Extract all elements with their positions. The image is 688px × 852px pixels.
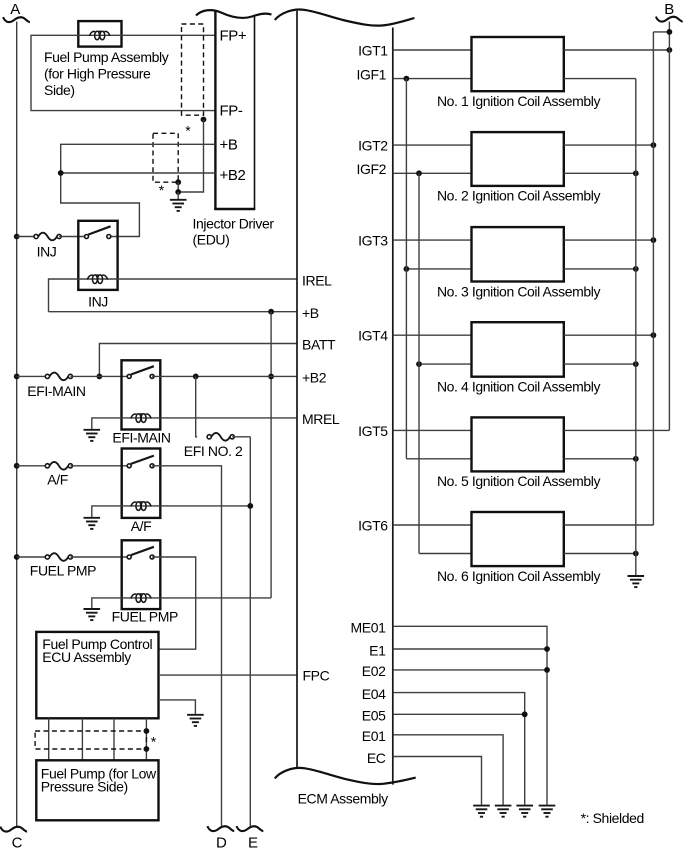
junction: shield drain +B — [175, 179, 181, 185]
ECM assembly left edge — [296, 11, 298, 769]
junction: A/F coil on EFI NO.2 line — [247, 503, 253, 509]
wire: EC to ground — [393, 757, 482, 805]
ground: fuel pump control ECU — [187, 715, 204, 726]
junction: E1 — [544, 646, 550, 652]
junction: bus to A/F fuse — [14, 463, 20, 469]
wire: shield drain segment to ground node — [177, 182, 179, 192]
wire: pump lead 3 — [113, 718, 115, 760]
svg-text:FUEL PMP: FUEL PMP — [112, 608, 178, 624]
wire: coil 3 ground lead — [564, 268, 636, 270]
junction: coil 4 +B — [651, 332, 657, 338]
wire: IGF2 line to coil 6 — [419, 553, 472, 555]
junction: coil 6 ground — [633, 551, 639, 557]
svg-text:ME01: ME01 — [351, 620, 387, 636]
wire: E01 to ground — [393, 735, 503, 805]
svg-text:IGT3: IGT3 — [358, 233, 388, 249]
wire: +B row to ECM — [49, 311, 298, 313]
ground: ME01/E1/E02 — [539, 806, 556, 817]
fuel pump (for low pressure side) box — [36, 760, 158, 820]
wire: IGF2 bus vertical — [418, 173, 420, 553]
relay A/F box — [122, 449, 161, 518]
wire: IGT5 to coil 5 — [393, 429, 472, 431]
harness B break squiggle — [656, 17, 683, 22]
wire: bus to EFI-MAIN fuse — [17, 375, 46, 377]
svg-text:(for High Pressure: (for High Pressure — [44, 66, 151, 82]
ignition coil U1 box — [472, 37, 564, 91]
ignition coil U3 box — [472, 227, 564, 281]
svg-text:E02: E02 — [362, 663, 386, 679]
svg-text:No. 3 Ignition Coil Assembly: No. 3 Ignition Coil Assembly — [437, 283, 601, 299]
wire: IGT2 to coil 2 — [393, 144, 472, 146]
wire: IGF2 line to coil 4 — [419, 363, 472, 365]
wire: ignition ground line — [635, 79, 637, 576]
wire: E04 to ground — [393, 693, 525, 805]
junction: coil 1 +B on B line — [667, 47, 673, 53]
wire: BATT to ECM — [99, 344, 297, 377]
wire: B to +B line link — [653, 31, 669, 33]
junction: bus to INJ fuse — [14, 234, 20, 240]
fuel pump motor coil inside pump assembly — [90, 31, 110, 40]
wire: branch to EDU +B2 — [61, 172, 216, 174]
ignition coil U6 box — [472, 512, 564, 566]
wire: FUEL PMP coil right to +B link — [160, 597, 271, 599]
wire: EFI-MAIN coil left to ground — [92, 418, 122, 429]
svg-text:ECM Assembly: ECM Assembly — [298, 790, 389, 806]
svg-text:INJ: INJ — [88, 294, 108, 310]
wire: A/F fuse to relay — [71, 465, 130, 467]
svg-text:MREL: MREL — [302, 411, 340, 427]
harness A break squiggle — [3, 17, 30, 22]
wire: INJ relay output to EDU +B — [61, 144, 216, 236]
label: Fuel Pump Control ECU Assembly — [42, 636, 152, 665]
junction: coil 2 ground — [633, 170, 639, 176]
wire: coil 3 +B to +B line — [564, 239, 654, 241]
wire: INJ fuse to relay — [59, 236, 86, 238]
wire: IGF2 to coil 2 — [393, 172, 472, 174]
junction: coil 2 +B — [651, 142, 657, 148]
svg-text:*: Shielded: *: Shielded — [581, 810, 644, 826]
ground: FUEL PMP relay coil — [84, 609, 101, 620]
wire: through INJ relay coil row — [78, 278, 117, 280]
wire: shield drain down from FP shield — [178, 120, 203, 193]
svg-text:ECU Assembly: ECU Assembly — [42, 649, 131, 665]
svg-text:E: E — [248, 835, 258, 852]
junction: E05 — [522, 711, 528, 717]
wire: IGF1 bus vertical — [405, 79, 407, 459]
wire: coil 4 ground lead — [564, 363, 636, 365]
wire: coil 4 +B to +B line — [564, 334, 654, 336]
svg-text:E05: E05 — [362, 708, 386, 724]
svg-text:Injector Driver: Injector Driver — [193, 216, 275, 232]
junction: IGF2 bus tap — [416, 170, 422, 176]
wire: IGT3 to coil 3 — [393, 239, 472, 241]
junction: shield bottom on lead 4 — [144, 746, 150, 752]
junction: +B2 tap — [268, 374, 274, 380]
svg-text:+B: +B — [220, 136, 238, 153]
wire: harness E vertical — [249, 437, 251, 827]
fuel pump control ECU assembly box — [36, 632, 158, 718]
svg-text:A/F: A/F — [47, 472, 68, 488]
injector driver EDU bottom edge — [214, 208, 255, 210]
svg-text:IGT6: IGT6 — [358, 518, 388, 534]
junction: EFI NO.2 tap — [193, 374, 199, 380]
svg-text:IGF2: IGF2 — [356, 161, 386, 177]
junction: shield drain FP — [201, 117, 207, 123]
svg-text:INJ: INJ — [37, 244, 57, 260]
wire: through A/F relay coil row — [122, 505, 161, 507]
wire: left supply bus A-C (x=16.7) — [16, 22, 18, 828]
junction: coil 5 ground — [633, 456, 639, 462]
wire: FUEL PMP relay output to pump ECU — [152, 557, 196, 649]
svg-text:IGT5: IGT5 — [358, 423, 388, 439]
svg-text:FP-: FP- — [220, 103, 243, 120]
junction: bus to EFI-MAIN fuse — [14, 374, 20, 380]
fuse INJ — [34, 233, 61, 241]
wire: through EFI-MAIN relay coil row — [122, 417, 161, 419]
wire: IGF1 line to coil 3 — [406, 268, 471, 270]
wire: bus to INJ fuse — [17, 236, 34, 238]
wire: bus to A/F fuse — [17, 465, 46, 467]
wire: IGF1 line to coil 5 — [406, 458, 471, 460]
wire: ignition +B distribution line — [652, 32, 654, 525]
junction: E02 — [544, 667, 550, 673]
ground: A/F relay coil — [84, 518, 101, 529]
svg-text:IGT4: IGT4 — [358, 328, 388, 344]
fuse FUEL PMP — [45, 553, 72, 561]
harness E break squiggle — [237, 826, 264, 831]
wire: through FUEL PMP relay coil row — [122, 597, 161, 599]
svg-text:EFI-MAIN: EFI-MAIN — [112, 430, 170, 446]
wire: pump ECU ground lead — [159, 700, 196, 714]
label: Injector Driver (EDU) — [193, 216, 275, 248]
svg-text:*: * — [159, 182, 165, 198]
wire: coil 2 +B to +B line — [564, 144, 654, 146]
svg-text:No. 2 Ignition Coil Assembly: No. 2 Ignition Coil Assembly — [437, 188, 601, 204]
ground: EFI-MAIN relay coil — [84, 430, 101, 441]
svg-text:No. 4 Ignition Coil Assembly: No. 4 Ignition Coil Assembly — [437, 379, 601, 395]
fuse EFI NO. 2 — [207, 433, 234, 441]
junction: coil 4 ground — [633, 361, 639, 367]
junction: shield drains common — [175, 189, 181, 195]
wire: stem to shield ground — [177, 192, 179, 199]
relay A/F switch — [127, 456, 154, 468]
svg-text:No. 6 Ignition Coil Assembly: No. 6 Ignition Coil Assembly — [437, 568, 601, 584]
ECM assembly right edge — [392, 28, 394, 785]
junction: B link — [667, 29, 673, 35]
wire: bus to FUEL PMP fuse — [17, 556, 46, 558]
wire: IGT4 to coil 4 — [393, 334, 472, 336]
relay EFI-MAIN box — [122, 360, 161, 429]
relay FUEL PMP box — [122, 540, 161, 609]
injector driver EDU right edge — [254, 16, 256, 210]
svg-text:IREL: IREL — [302, 272, 332, 288]
svg-text:(EDU): (EDU) — [193, 232, 230, 248]
relay INJ switch — [85, 226, 111, 238]
svg-text:IGT2: IGT2 — [358, 138, 388, 154]
svg-text:FUEL PMP: FUEL PMP — [30, 563, 96, 579]
junction: IGF1 bus tap — [404, 76, 410, 82]
wire: EFI-MAIN relay output to ECM +B2 — [152, 375, 297, 377]
ground: E04 — [516, 806, 533, 817]
wire: pump lead 4 (shield drain) — [145, 718, 147, 760]
label: Fuel Pump (for Low Pressure Side) — [41, 766, 157, 795]
wire: IGT6 to coil 6 — [393, 524, 472, 526]
wire: E02 to ground line — [393, 669, 547, 671]
svg-text:EFI NO. 2: EFI NO. 2 — [184, 443, 243, 459]
junction: coil 3 IGF — [404, 266, 410, 272]
junction: bus to FUEL PMP fuse — [14, 554, 20, 560]
harness C break squiggle — [0, 827, 27, 832]
wire: IGF1 to coil 1 — [393, 78, 472, 80]
ground: EC — [473, 806, 490, 817]
junction: shield top on lead 4 — [144, 728, 150, 734]
ground: ignition coils common — [628, 576, 645, 587]
ground: E01 — [495, 806, 512, 817]
junction: coil 3 ground — [633, 266, 639, 272]
junction: coil 4 IGF — [416, 361, 422, 367]
wire: +B2 row down to EFI NO.2 fuse — [196, 376, 198, 436]
svg-text:IGF1: IGF1 — [356, 66, 386, 82]
wire: pump lead 1 — [48, 718, 50, 760]
wire: coil 2 ground lead — [564, 172, 636, 174]
svg-text:No. 1 Ignition Coil Assembly: No. 1 Ignition Coil Assembly — [437, 93, 601, 109]
wire: FUEL PMP fuse to relay — [71, 556, 130, 558]
svg-text:No. 5 Ignition Coil Assembly: No. 5 Ignition Coil Assembly — [437, 473, 601, 489]
svg-text:E04: E04 — [362, 686, 386, 702]
ground: shield drain ground — [170, 200, 187, 211]
wire: FUEL PMP coil left to ground — [92, 598, 122, 608]
svg-text:FP+: FP+ — [220, 27, 247, 44]
fuse EFI-MAIN — [45, 373, 72, 381]
svg-text:A: A — [10, 1, 20, 18]
wire: coil 1 ground lead — [564, 78, 636, 80]
ignition coil U4 box — [472, 322, 564, 377]
relay INJ coil — [87, 275, 107, 284]
harness D break squiggle — [207, 826, 234, 831]
shield (dashed) around FP+/FP- wires — [182, 24, 204, 115]
svg-text:D: D — [216, 835, 227, 852]
ignition coil U2 box — [472, 132, 564, 186]
svg-text:E01: E01 — [362, 728, 386, 744]
wire: coil 6 ground lead — [564, 553, 636, 555]
wire: INJ coil left to +B node — [49, 279, 79, 312]
injector driver EDU torn-edge top — [196, 10, 272, 18]
wire: EFI-MAIN fuse to relay — [71, 375, 130, 377]
wire: coil 6 +B from +B line — [564, 524, 654, 526]
relay FUEL PMP coil — [131, 594, 151, 603]
wire: pump ECU FPC to ECM — [159, 674, 298, 676]
relay A/F coil — [131, 502, 151, 511]
junction: +B tap — [268, 309, 274, 315]
wire: INJ coil to ECM IREL — [118, 278, 297, 280]
wire: EFI-MAIN coil to ECM MREL — [160, 417, 297, 419]
svg-text:BATT: BATT — [302, 337, 336, 353]
relay EFI-MAIN switch — [127, 366, 154, 378]
wire: E1 to ground line — [393, 648, 547, 650]
wire: through pump assembly — [78, 34, 121, 36]
wire: harness B vertical — [668, 22, 670, 431]
svg-text:FPC: FPC — [303, 668, 330, 684]
svg-text:B: B — [664, 1, 674, 18]
wire: A/F coil left to ground — [92, 506, 122, 517]
wire: EFI NO.2 fuse to harness E drop — [232, 436, 250, 438]
wire: coil 5 +B from B line — [564, 429, 670, 431]
svg-text:+B2: +B2 — [220, 167, 246, 184]
shield (dashed) around +B/+B2 wires — [153, 133, 178, 182]
fuel pump assembly (for high pressure side) box — [78, 21, 121, 46]
svg-text:+B: +B — [302, 305, 319, 321]
svg-text:C: C — [12, 835, 23, 852]
svg-text:EC: EC — [367, 750, 386, 766]
ECM assembly torn-edge bottom — [275, 768, 416, 784]
label: Fuel Pump Assembly (for High Pressure Side) — [44, 49, 169, 98]
svg-text:IGT1: IGT1 — [358, 43, 388, 59]
svg-text:A/F: A/F — [131, 518, 152, 534]
svg-text:Pressure Side): Pressure Side) — [41, 779, 128, 795]
wire: A/F coil right to EFI NO.2 line — [160, 505, 250, 507]
ECM assembly torn-edge top — [275, 10, 415, 26]
shield (dashed) around fuel pump leads — [35, 731, 146, 749]
svg-text:Fuel Pump Assembly: Fuel Pump Assembly — [44, 49, 169, 65]
relay INJ box — [78, 221, 117, 290]
wire: coil 5 ground lead — [564, 458, 636, 460]
wire: coil 1 +B to harness B line — [564, 49, 670, 51]
fuse A/F — [45, 462, 72, 470]
injector driver EDU left edge — [214, 12, 216, 210]
wire: pump to EDU FP+ — [122, 34, 216, 36]
relay EFI-MAIN coil — [131, 414, 151, 423]
svg-text:+B2: +B2 — [302, 370, 327, 386]
relay FUEL PMP switch — [127, 547, 154, 559]
wire: IGT1 to coil 1 — [393, 49, 472, 51]
junction: +B/+B2 branch — [58, 170, 64, 176]
ignition coil U5 box — [472, 417, 564, 471]
svg-text:Side): Side) — [44, 82, 75, 98]
svg-text:EFI-MAIN: EFI-MAIN — [27, 383, 85, 399]
junction: coil 3 +B — [651, 237, 657, 243]
wire: pump lead 2 — [81, 718, 83, 760]
wire: pump left down-loop to EDU FP- — [31, 35, 215, 110]
wire: A/F relay output to harness D drop — [152, 466, 221, 827]
svg-text:*: * — [151, 734, 157, 750]
junction: BATT tap on +B2 row — [97, 374, 103, 380]
svg-text:E1: E1 — [369, 642, 386, 658]
svg-text:*: * — [185, 123, 191, 139]
wire: E05 to ground line — [393, 713, 525, 715]
wire: +B/+B2 vertical link — [270, 312, 272, 598]
wire: ME01 to ground — [393, 626, 547, 805]
